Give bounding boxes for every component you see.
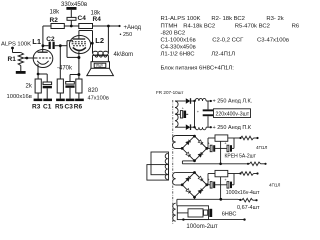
svg-text:C4-330x450в: C4-330x450в [161, 45, 196, 51]
svg-text:100om-2шт: 100om-2шт [186, 224, 217, 230]
svg-text:R5-470k ВС2: R5-470k ВС2 [235, 23, 270, 29]
svg-text:R6: R6 [74, 104, 83, 111]
svg-text:+ 250 Анод П.К: + 250 Анод П.К [213, 125, 252, 131]
svg-text:18k: 18k [50, 9, 61, 15]
svg-text:6НВС: 6НВС [222, 212, 237, 218]
svg-text:4П1Л: 4П1Л [269, 182, 280, 187]
svg-text:L2: L2 [95, 36, 104, 45]
svg-text:220x400v-3шт: 220x400v-3шт [216, 111, 250, 117]
svg-text:R1-ALPS 100K: R1-ALPS 100K [161, 16, 201, 22]
svg-text:-470k: -470k [57, 65, 73, 71]
svg-text:-820 ВС2: -820 ВС2 [161, 31, 186, 37]
svg-text:R5: R5 [55, 104, 64, 111]
svg-text:4П1Л: 4П1Л [256, 145, 267, 150]
svg-text:R4-18k ВС2: R4-18k ВС2 [183, 23, 215, 29]
svg-text:C3-47x100в: C3-47x100в [257, 37, 289, 43]
svg-text:C4: C4 [78, 15, 87, 22]
svg-text:Блок питания 6Н8С+4П1Л:: Блок питания 6Н8С+4П1Л: [161, 66, 235, 72]
svg-text:L1: L1 [32, 37, 41, 46]
svg-text:+ 250 Анод Л.К.: + 250 Анод Л.К. [213, 99, 253, 105]
svg-text:FR 207-10шт: FR 207-10шт [156, 90, 184, 95]
svg-text:R4: R4 [93, 16, 102, 23]
svg-text:ALPS 100K: ALPS 100K [1, 41, 31, 47]
svg-text:R6: R6 [292, 23, 300, 29]
svg-text:2k: 2k [26, 84, 33, 90]
svg-text:4k\8om: 4k\8om [114, 52, 134, 58]
svg-text:C3: C3 [65, 104, 74, 111]
svg-text:• 250: • 250 [120, 32, 133, 38]
svg-text:ПТМН: ПТМН [161, 23, 178, 29]
svg-text:C2-0,2 ССГ: C2-0,2 ССГ [212, 37, 244, 43]
svg-text:R3: R3 [32, 104, 41, 111]
svg-text:Л2-4П1Л: Л2-4П1Л [211, 51, 235, 57]
svg-text:47x100в: 47x100в [88, 96, 109, 102]
svg-text:КРЕН 5А-2шт: КРЕН 5А-2шт [225, 154, 257, 160]
svg-text:R2- 18k ВС2: R2- 18k ВС2 [211, 16, 245, 22]
svg-text:820: 820 [88, 88, 99, 94]
svg-text:+: + [182, 106, 184, 110]
svg-text:C2: C2 [46, 36, 55, 43]
svg-text:0,67-4шт: 0,67-4шт [237, 205, 260, 211]
svg-text:C1-1000x16в: C1-1000x16в [161, 37, 196, 43]
svg-text:1000x16в: 1000x16в [7, 94, 32, 100]
svg-text:R1: R1 [8, 56, 17, 63]
svg-text:+Анод: +Анод [124, 25, 142, 31]
svg-text:95дб: 95дб [96, 64, 103, 68]
svg-text:330х450в: 330х450в [61, 2, 87, 8]
svg-text:1000x16v-4шт: 1000x16v-4шт [226, 190, 260, 196]
svg-text:R2: R2 [50, 17, 59, 24]
svg-text:R3- 2k: R3- 2k [266, 16, 283, 22]
svg-text:C1: C1 [43, 104, 52, 111]
svg-text:Л1-1\2 6Н8С: Л1-1\2 6Н8С [161, 51, 196, 57]
